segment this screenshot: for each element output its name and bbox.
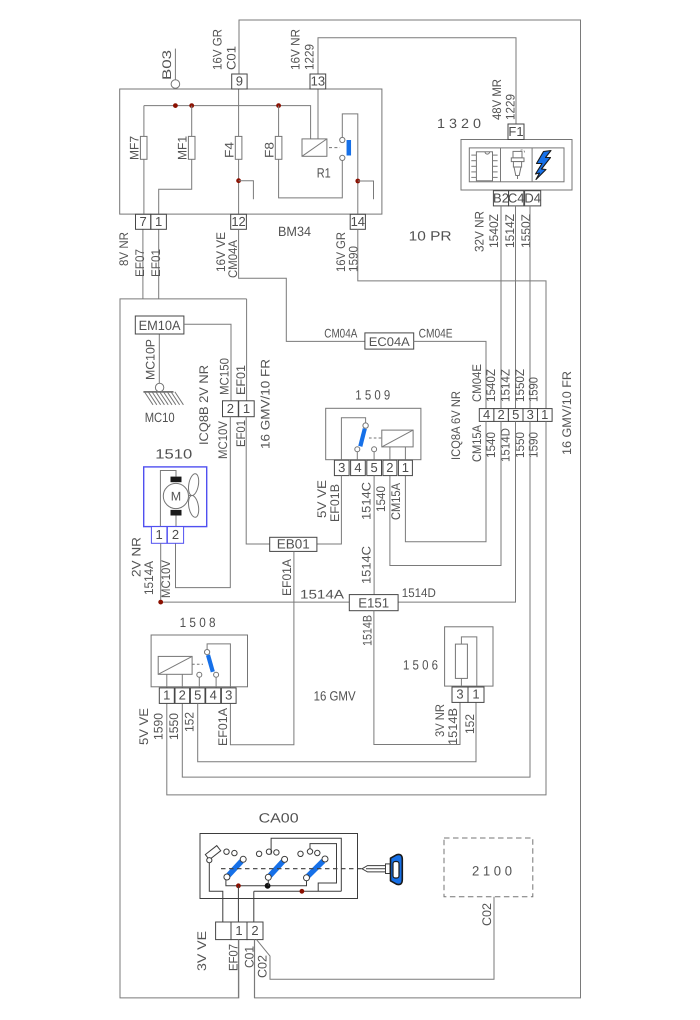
wire CM04E: [414, 341, 486, 408]
svg-text:C02: C02: [255, 955, 269, 978]
pin 1: [468, 687, 484, 702]
splice E151: [349, 595, 398, 611]
pin 5: [190, 688, 205, 704]
pin 9: [232, 74, 247, 89]
svg-text:1: 1: [155, 214, 162, 229]
ground MC10: [155, 383, 163, 391]
svg-text:9: 9: [236, 74, 243, 89]
svg-text:B03: B03: [160, 50, 174, 80]
svg-text:CM04E: CM04E: [470, 364, 484, 402]
svg-text:1590: 1590: [526, 432, 540, 458]
svg-text:3: 3: [225, 688, 232, 703]
wire EF01 from BM34 pin 1: [158, 229, 160, 299]
wire EM10A to ground: [158, 334, 160, 383]
svg-text:5: 5: [194, 688, 201, 703]
icon lightning bolt: [536, 151, 552, 180]
resistor element: [455, 644, 467, 678]
svg-text:1550Z: 1550Z: [519, 214, 533, 248]
wire EF07 net (left frame and bottom-left): [142, 229, 144, 299]
wire lever2 stub: [267, 880, 269, 886]
svg-text:2: 2: [227, 401, 234, 416]
svg-text:1514B: 1514B: [361, 615, 375, 646]
svg-text:ICQ8A 6V NR: ICQ8A 6V NR: [449, 391, 463, 460]
svg-text:3: 3: [527, 407, 534, 422]
wire C02: [257, 897, 495, 980]
wire internal pin3 to contact: [341, 418, 365, 460]
svg-text:4: 4: [483, 407, 490, 422]
svg-text:1540Z: 1540Z: [484, 369, 498, 402]
wire C01 net (pin 9 to CA00, top/right/bottom frame): [239, 20, 581, 998]
wire EF07 below: [237, 940, 239, 998]
svg-text:EF01B: EF01B: [328, 484, 342, 522]
svg-text:MC150: MC150: [218, 358, 232, 395]
wire 1550: [182, 421, 530, 777]
svg-text:5V VE: 5V VE: [137, 708, 151, 745]
svg-text:16 GMV/10 FR: 16 GMV/10 FR: [259, 359, 273, 449]
wire 1514D: [398, 421, 515, 602]
pin 5: [367, 460, 382, 475]
wire internal bus 1: [226, 880, 307, 886]
wire drops to connector: [237, 886, 239, 922]
svg-text:16 GMV/10 FR: 16 GMV/10 FR: [560, 371, 574, 455]
fuse MF1: [159, 106, 192, 215]
pin 14: [350, 214, 365, 229]
svg-text:CM15A: CM15A: [389, 482, 403, 520]
svg-text:1540: 1540: [374, 486, 388, 512]
splice EM10A: [135, 316, 184, 334]
svg-text:C4: C4: [508, 190, 525, 205]
junction: [265, 883, 271, 889]
motor M: [171, 477, 182, 483]
svg-text:CM15A: CM15A: [470, 424, 484, 462]
junction: [189, 103, 194, 108]
wire MC10V: [176, 417, 231, 588]
svg-text:4: 4: [354, 460, 361, 475]
switch 3 lever: [308, 861, 323, 876]
wire EF01 to EB01: [246, 417, 270, 544]
svg-text:E151: E151: [358, 595, 389, 610]
junction: [300, 889, 305, 894]
pin B2: [493, 191, 508, 206]
connector pin 2: [223, 401, 239, 417]
svg-text:1514C: 1514C: [359, 482, 373, 520]
coil 1508: [158, 656, 192, 674]
pin 1: [151, 214, 167, 229]
wire 1540: [390, 421, 501, 565]
svg-text:2: 2: [172, 527, 179, 542]
pin 1: [151, 527, 167, 544]
pin 1: [398, 460, 412, 475]
wire CM15A: [405, 421, 486, 541]
wire 1550Z: [529, 206, 531, 409]
svg-text:4: 4: [210, 688, 217, 703]
svg-text:EB01: EB01: [277, 537, 310, 552]
svg-text:MC10V: MC10V: [159, 559, 173, 598]
svg-text:CM04A: CM04A: [324, 327, 358, 341]
wire 1590: [167, 421, 546, 795]
wire C01 below: [253, 940, 255, 998]
svg-text:1: 1: [541, 407, 548, 422]
svg-text:C01: C01: [225, 46, 239, 70]
wire 1514B: [374, 611, 460, 745]
svg-text:D4: D4: [524, 190, 541, 205]
svg-text:5: 5: [371, 460, 378, 475]
pin 3: [334, 460, 349, 475]
svg-text:EC04A: EC04A: [369, 335, 411, 349]
svg-text:1514Z: 1514Z: [498, 369, 512, 402]
contact lever off: [205, 846, 220, 860]
svg-text:2: 2: [179, 688, 186, 703]
svg-text:MF1: MF1: [176, 136, 190, 160]
svg-text:1510: 1510: [155, 446, 192, 461]
icon chip: [476, 152, 492, 181]
junction: [276, 103, 281, 108]
connector pin 1: [239, 401, 255, 417]
svg-text:BM34: BM34: [278, 224, 311, 239]
svg-text:MC10V: MC10V: [216, 420, 230, 459]
svg-text:1590: 1590: [151, 713, 165, 740]
pin 7: [136, 214, 151, 229]
svg-text:13: 13: [311, 74, 325, 89]
icon injector: [513, 151, 522, 158]
svg-text:C02: C02: [480, 903, 494, 926]
wire 1514A: [161, 543, 350, 602]
junction: [173, 103, 178, 108]
svg-text:EF01: EF01: [234, 365, 248, 395]
contact circles switch 3: [298, 851, 303, 856]
pin 2: [175, 688, 190, 704]
fuse F8: [279, 106, 343, 198]
wire internal bus BM34: [144, 106, 311, 139]
svg-text:1514D: 1514D: [402, 586, 436, 600]
svg-text:16V NR: 16V NR: [289, 29, 303, 70]
svg-text:1: 1: [163, 688, 170, 703]
svg-text:MC10P: MC10P: [143, 339, 157, 380]
svg-text:MF7: MF7: [128, 136, 142, 160]
svg-text:14: 14: [351, 214, 365, 229]
pin 3: [452, 687, 468, 702]
svg-text:EF01A: EF01A: [216, 707, 230, 746]
wire 1514C: [373, 476, 375, 595]
pin 13: [310, 74, 326, 89]
coil 1509: [382, 430, 413, 447]
relay R1 coil: [317, 89, 319, 139]
svg-text:152: 152: [463, 714, 477, 734]
pin 3: [221, 688, 236, 704]
pin D4: [525, 191, 541, 206]
wire MC150: [184, 324, 231, 401]
svg-text:1514C: 1514C: [359, 546, 373, 584]
svg-text:152: 152: [183, 712, 197, 732]
wire EF01 drop to connector 2-1: [246, 299, 248, 401]
svg-text:1: 1: [243, 401, 250, 416]
svg-text:2: 2: [498, 407, 505, 422]
svg-text:2 1 0 0: 2 1 0 0: [472, 864, 512, 879]
svg-text:16 GMV: 16 GMV: [314, 689, 356, 704]
wire 1229 (pin 13 to fuse F1 of 1320): [318, 38, 516, 124]
svg-text:M: M: [171, 490, 181, 504]
svg-text:2: 2: [386, 460, 393, 475]
svg-text:1514A: 1514A: [300, 588, 345, 602]
connector strip 4-2-5-3-1: [479, 409, 494, 422]
svg-text:1514Z: 1514Z: [503, 214, 517, 248]
pin 1: [159, 688, 174, 704]
svg-text:EF01: EF01: [149, 249, 163, 277]
wire internal: [160, 471, 176, 527]
svg-text:2: 2: [251, 923, 258, 938]
contact 1509: [363, 423, 368, 428]
contact circles switch 1: [224, 849, 229, 854]
svg-text:F8: F8: [263, 142, 277, 158]
junction: [236, 883, 241, 888]
pin 4: [206, 688, 221, 704]
svg-text:8V NR: 8V NR: [117, 232, 131, 266]
svg-text:1229: 1229: [302, 44, 316, 70]
svg-text:1: 1: [402, 460, 409, 475]
svg-text:1550: 1550: [167, 713, 181, 740]
svg-text:CM04E: CM04E: [419, 327, 453, 341]
wire 1590 from pin 14: [358, 229, 546, 408]
fuse F4: [238, 89, 240, 214]
svg-text:1550Z: 1550Z: [513, 369, 527, 402]
svg-text:3V VE: 3V VE: [195, 931, 209, 971]
pin 2: [383, 460, 397, 475]
pin F1: [508, 124, 524, 140]
key: [362, 866, 386, 872]
relay R1 contact: [342, 114, 358, 214]
contact 1508: [207, 644, 230, 688]
svg-text:ICQ8B 2V NR: ICQ8B 2V NR: [197, 365, 211, 445]
svg-text:1514A: 1514A: [142, 560, 156, 595]
fan blades: [187, 473, 200, 496]
svg-text:7: 7: [139, 214, 146, 229]
svg-text:1590: 1590: [526, 377, 540, 402]
wire internal step: [310, 844, 337, 892]
pin 4: [351, 460, 366, 475]
svg-text:EM10A: EM10A: [139, 318, 181, 333]
svg-text:1 5 0 9: 1 5 0 9: [355, 387, 390, 402]
junction: [158, 600, 163, 605]
junction with branch stub: [236, 178, 241, 183]
splice EB01: [270, 537, 317, 551]
svg-text:1 5 0 8: 1 5 0 8: [180, 615, 216, 630]
svg-text:32V NR: 32V NR: [473, 211, 487, 252]
svg-text:1514B: 1514B: [446, 708, 460, 745]
svg-text:1229: 1229: [503, 94, 517, 120]
svg-text:CA00: CA00: [259, 810, 299, 825]
svg-text:MC10: MC10: [145, 410, 175, 425]
pin 12: [231, 214, 247, 229]
control unit 1320: [461, 140, 572, 191]
wire internal loop: [271, 838, 341, 891]
dashed actuation line: [221, 868, 369, 870]
svg-text:R1: R1: [317, 166, 331, 181]
svg-text:F4: F4: [223, 142, 237, 158]
fuse box BM34: [120, 89, 382, 214]
wire 1514Z: [515, 206, 517, 409]
junction with branch stub: [355, 179, 360, 184]
svg-text:EF01A: EF01A: [280, 558, 294, 596]
fuse MF7: [143, 106, 145, 215]
svg-text:1: 1: [472, 687, 479, 702]
wire EF01B: [317, 476, 342, 544]
wire 1540Z: [500, 206, 502, 409]
svg-text:B2: B2: [493, 190, 509, 205]
wire CM04A: [239, 229, 365, 341]
wire 152: [198, 702, 476, 761]
wire left contact drop: [209, 863, 223, 922]
contact circles switch 2: [256, 851, 261, 856]
svg-text:48V MR: 48V MR: [490, 79, 504, 120]
svg-text:F1: F1: [508, 124, 523, 139]
switch 1 lever: [229, 861, 242, 875]
svg-text:1 5 0 6: 1 5 0 6: [403, 658, 438, 673]
svg-text:3: 3: [456, 687, 463, 702]
svg-text:5: 5: [512, 407, 519, 422]
svg-text:EF07: EF07: [133, 249, 147, 277]
svg-text:3: 3: [338, 460, 345, 475]
svg-text:16V GR: 16V GR: [211, 29, 225, 70]
svg-text:CM04A: CM04A: [226, 239, 240, 278]
svg-text:12: 12: [231, 214, 245, 229]
wire internal bus 2: [254, 890, 341, 892]
junction box EC04A: [365, 333, 414, 349]
switch 2 lever: [270, 861, 283, 875]
svg-text:1: 1: [235, 923, 242, 938]
wire EF01A: [230, 551, 294, 744]
pin 2: [167, 527, 183, 544]
svg-text:10 PR: 10 PR: [409, 229, 452, 244]
unit 2100 (dashed): [444, 838, 533, 897]
svg-text:1540Z: 1540Z: [487, 214, 501, 248]
connector B03: [171, 80, 180, 89]
svg-text:1 3 2 0: 1 3 2 0: [437, 116, 481, 131]
svg-text:1: 1: [156, 527, 163, 542]
pin C4: [509, 191, 524, 206]
connector CA00: [216, 922, 231, 940]
